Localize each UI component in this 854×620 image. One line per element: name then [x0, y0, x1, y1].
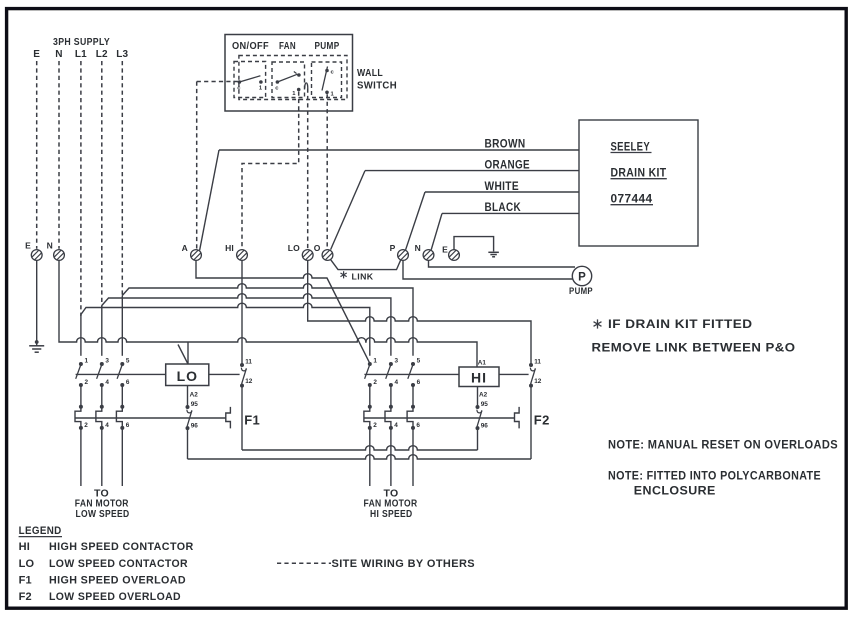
- svg-text:FAN: FAN: [279, 41, 296, 52]
- svg-text:WHITE: WHITE: [485, 181, 520, 193]
- svg-text:PUMP: PUMP: [569, 286, 593, 296]
- svg-text:3PH SUPPLY: 3PH SUPPLY: [53, 36, 110, 48]
- svg-text:2: 2: [84, 422, 88, 429]
- svg-text:4: 4: [105, 422, 109, 429]
- svg-text:L1: L1: [75, 49, 87, 60]
- svg-text:11: 11: [534, 359, 541, 366]
- svg-text:HI: HI: [471, 369, 487, 385]
- svg-text:LEGEND: LEGEND: [19, 525, 62, 537]
- svg-text:5: 5: [417, 358, 421, 365]
- svg-text:1: 1: [331, 92, 335, 98]
- svg-text:BLACK: BLACK: [485, 202, 522, 214]
- svg-text:2: 2: [373, 379, 377, 386]
- svg-text:SITE WIRING BY OTHERS: SITE WIRING BY OTHERS: [332, 558, 476, 570]
- svg-text:F1: F1: [244, 412, 260, 427]
- svg-text:c: c: [331, 70, 335, 76]
- svg-text:REMOVE LINK BETWEEN P&O: REMOVE LINK BETWEEN P&O: [592, 343, 796, 355]
- svg-text:1: 1: [259, 86, 263, 92]
- svg-text:P: P: [390, 243, 396, 253]
- svg-text:HIGH SPEED CONTACTOR: HIGH SPEED CONTACTOR: [49, 541, 194, 553]
- svg-text:NOTE: MANUAL RESET ON OVERLOAD: NOTE: MANUAL RESET ON OVERLOADS: [608, 440, 838, 452]
- svg-text:A2: A2: [479, 392, 488, 399]
- svg-text:1: 1: [292, 91, 296, 97]
- svg-text:HI SPEED: HI SPEED: [370, 508, 413, 520]
- svg-text:N: N: [55, 49, 62, 60]
- svg-text:LO: LO: [177, 368, 198, 384]
- svg-text:LOW SPEED CONTACTOR: LOW SPEED CONTACTOR: [49, 558, 188, 570]
- svg-text:ORANGE: ORANGE: [485, 160, 531, 172]
- svg-text:c: c: [275, 86, 279, 92]
- svg-text:LINK: LINK: [352, 272, 374, 282]
- svg-text:4: 4: [395, 379, 399, 386]
- svg-text:L2: L2: [96, 49, 108, 60]
- svg-text:NOTE: FITTED INTO POLYCARBONAT: NOTE: FITTED INTO POLYCARBONATE: [608, 471, 821, 483]
- svg-text:F2: F2: [534, 412, 550, 427]
- svg-text:1: 1: [373, 358, 377, 365]
- svg-text:A1: A1: [478, 360, 487, 367]
- svg-text:3: 3: [395, 358, 399, 365]
- svg-text:E: E: [33, 49, 40, 60]
- svg-text:N: N: [415, 243, 421, 253]
- svg-text:E: E: [25, 241, 31, 251]
- svg-text:F1: F1: [19, 574, 32, 586]
- svg-text:ENCLOSURE: ENCLOSURE: [634, 486, 716, 498]
- svg-text:11: 11: [245, 359, 252, 366]
- svg-text:2: 2: [373, 422, 377, 429]
- svg-text:E: E: [442, 245, 448, 255]
- svg-text:SEELEY: SEELEY: [611, 141, 651, 153]
- svg-text:96: 96: [481, 422, 489, 429]
- svg-text:L3: L3: [116, 49, 128, 60]
- svg-text:A2: A2: [190, 392, 199, 399]
- svg-text:2: 2: [85, 379, 89, 386]
- svg-text:LOW SPEED OVERLOAD: LOW SPEED OVERLOAD: [49, 591, 181, 603]
- svg-text:HI: HI: [225, 243, 234, 253]
- svg-text:4: 4: [394, 422, 398, 429]
- svg-text:SWITCH: SWITCH: [357, 80, 397, 92]
- svg-text:A: A: [182, 243, 188, 253]
- svg-text:DRAIN KIT: DRAIN KIT: [611, 168, 667, 180]
- svg-text:6: 6: [126, 379, 130, 386]
- svg-text:4: 4: [105, 379, 109, 386]
- svg-text:95: 95: [191, 401, 199, 408]
- svg-text:96: 96: [191, 422, 199, 429]
- svg-text:HI: HI: [19, 541, 30, 553]
- svg-text:3: 3: [105, 358, 109, 365]
- svg-text:12: 12: [245, 378, 253, 385]
- svg-text:N: N: [47, 241, 53, 251]
- svg-text:c: c: [237, 86, 241, 92]
- svg-text:P: P: [578, 272, 586, 284]
- svg-text:HIGH SPEED OVERLOAD: HIGH SPEED OVERLOAD: [49, 574, 186, 586]
- svg-text:6: 6: [126, 422, 130, 429]
- svg-text:O: O: [314, 243, 321, 253]
- svg-text:LOW SPEED: LOW SPEED: [76, 508, 130, 520]
- svg-text:LO: LO: [19, 558, 35, 570]
- svg-text:077444: 077444: [611, 194, 653, 206]
- svg-text:5: 5: [126, 358, 130, 365]
- svg-text:6: 6: [416, 422, 420, 429]
- svg-text:WALL: WALL: [357, 67, 383, 79]
- svg-text:6: 6: [417, 379, 421, 386]
- svg-text:LO: LO: [288, 243, 300, 253]
- svg-text:PUMP: PUMP: [315, 41, 340, 52]
- svg-text:1: 1: [85, 358, 89, 365]
- svg-text:ON/OFF: ON/OFF: [232, 41, 269, 52]
- svg-text:95: 95: [481, 401, 489, 408]
- svg-text:12: 12: [534, 378, 542, 385]
- svg-text:IF DRAIN KIT FITTED: IF DRAIN KIT FITTED: [608, 319, 753, 331]
- svg-text:BROWN: BROWN: [485, 139, 526, 151]
- svg-text:F2: F2: [19, 591, 32, 603]
